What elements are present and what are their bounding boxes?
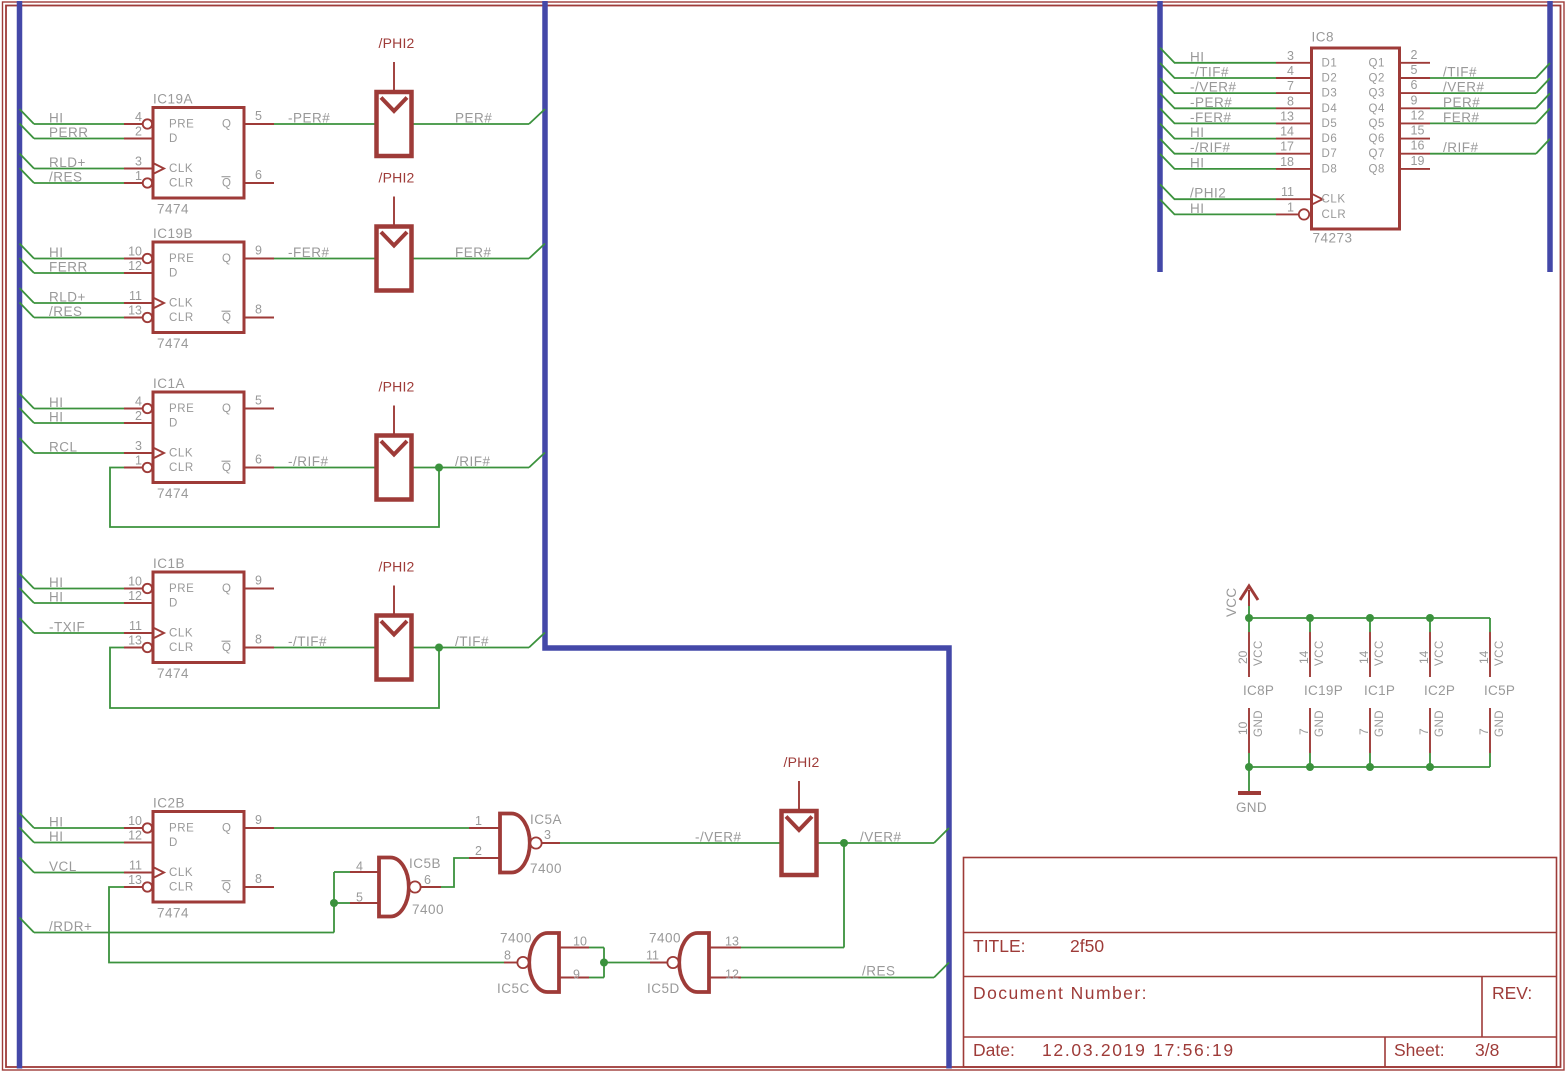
svg-text:12: 12 <box>1411 108 1425 122</box>
svg-text:PRE: PRE <box>169 403 194 415</box>
svg-text:HI: HI <box>49 245 64 260</box>
svg-text:12: 12 <box>128 589 142 603</box>
svg-text:GND: GND <box>1494 710 1506 737</box>
svg-text:Q: Q <box>222 119 231 131</box>
svg-text:2f50: 2f50 <box>1070 936 1104 956</box>
svg-text:-PER#: -PER# <box>288 111 330 126</box>
svg-text:11: 11 <box>646 949 659 963</box>
svg-text:11: 11 <box>129 289 142 303</box>
svg-text:Q: Q <box>222 583 231 595</box>
svg-text:7474: 7474 <box>157 906 189 921</box>
svg-text:9: 9 <box>255 244 262 258</box>
svg-text:9: 9 <box>255 813 262 827</box>
svg-text:PRE: PRE <box>169 119 194 131</box>
svg-text:/PHI2: /PHI2 <box>1190 186 1226 201</box>
svg-text:12.03.2019 17:56:19: 12.03.2019 17:56:19 <box>1042 1040 1235 1060</box>
svg-text:CLR: CLR <box>169 312 194 324</box>
svg-text:IC1B: IC1B <box>153 556 185 571</box>
svg-text:1: 1 <box>475 814 482 828</box>
svg-text:-/TIF#: -/TIF# <box>288 634 327 649</box>
svg-text:GND: GND <box>1434 710 1446 737</box>
svg-text:/RIF#: /RIF# <box>1443 140 1479 155</box>
svg-text:13: 13 <box>725 935 739 949</box>
svg-text:3: 3 <box>1287 49 1294 63</box>
svg-text:IC1A: IC1A <box>153 376 185 391</box>
svg-text:REV:: REV: <box>1492 983 1532 1003</box>
svg-text:/PHI2: /PHI2 <box>379 35 415 51</box>
svg-text:7: 7 <box>1297 728 1311 735</box>
svg-text:PRE: PRE <box>169 823 194 835</box>
svg-text:/VER#: /VER# <box>860 830 902 845</box>
svg-text:4: 4 <box>1287 64 1294 78</box>
svg-text:GND: GND <box>1374 710 1386 737</box>
svg-text:/PHI2: /PHI2 <box>379 170 415 186</box>
svg-text:7474: 7474 <box>157 202 189 217</box>
svg-text:IC2P: IC2P <box>1424 683 1455 698</box>
svg-text:8: 8 <box>255 303 262 317</box>
svg-text:D4: D4 <box>1322 103 1338 115</box>
svg-text:13: 13 <box>128 873 142 887</box>
svg-text:Q: Q <box>222 882 231 894</box>
svg-text:/TIF#: /TIF# <box>1443 65 1477 80</box>
svg-text:20: 20 <box>1236 650 1250 664</box>
svg-text:D2: D2 <box>1322 73 1338 85</box>
svg-text:Date:: Date: <box>973 1040 1015 1060</box>
svg-text:IC5B: IC5B <box>409 856 441 871</box>
svg-text:Q3: Q3 <box>1369 88 1386 100</box>
svg-text:13: 13 <box>128 304 142 318</box>
svg-text:10: 10 <box>128 575 142 589</box>
svg-text:HI: HI <box>49 111 64 126</box>
svg-text:RCL: RCL <box>49 440 78 455</box>
svg-text:7400: 7400 <box>412 902 444 917</box>
svg-text:/RES: /RES <box>49 304 83 319</box>
svg-text:TITLE:: TITLE: <box>973 936 1026 956</box>
svg-text:IC5A: IC5A <box>530 812 562 827</box>
svg-text:2: 2 <box>1411 48 1418 62</box>
svg-text:-/TIF#: -/TIF# <box>1190 65 1229 80</box>
svg-text:6: 6 <box>255 453 262 467</box>
svg-text:4: 4 <box>356 860 363 874</box>
svg-text:HI: HI <box>49 590 64 605</box>
svg-text:GND: GND <box>1314 710 1326 737</box>
svg-text:HI: HI <box>1190 49 1205 64</box>
svg-text:IC5D: IC5D <box>647 981 680 996</box>
svg-text:HI: HI <box>49 829 64 844</box>
svg-text:VCC: VCC <box>1314 640 1326 666</box>
svg-text:-FER#: -FER# <box>1190 110 1232 125</box>
svg-text:D5: D5 <box>1322 118 1338 130</box>
svg-text:CLK: CLK <box>1322 194 1346 206</box>
svg-text:FERR: FERR <box>49 260 88 275</box>
svg-text:12: 12 <box>128 259 142 273</box>
svg-text:FER#: FER# <box>1443 110 1480 125</box>
svg-text:1: 1 <box>1287 200 1294 214</box>
svg-text:D: D <box>169 598 178 610</box>
svg-text:6: 6 <box>424 873 431 887</box>
svg-text:14: 14 <box>1477 650 1491 664</box>
svg-text:HI: HI <box>49 815 64 830</box>
svg-text:HI: HI <box>49 395 64 410</box>
svg-text:Q2: Q2 <box>1369 73 1386 85</box>
svg-text:D: D <box>169 418 178 430</box>
svg-text:/VER#: /VER# <box>1443 80 1485 95</box>
svg-text:/RES: /RES <box>49 170 83 185</box>
svg-text:Q: Q <box>222 253 231 265</box>
svg-text:9: 9 <box>255 574 262 588</box>
svg-text:5: 5 <box>1411 63 1418 77</box>
svg-text:GND: GND <box>1253 710 1265 737</box>
svg-text:10: 10 <box>128 245 142 259</box>
svg-text:7: 7 <box>1357 728 1371 735</box>
svg-text:3/8: 3/8 <box>1475 1040 1499 1060</box>
svg-text:PRE: PRE <box>169 253 194 265</box>
svg-text:Q: Q <box>222 312 231 324</box>
svg-text:12: 12 <box>725 968 739 982</box>
svg-text:10: 10 <box>1236 721 1250 735</box>
svg-text:Document Number:: Document Number: <box>973 983 1148 1003</box>
svg-text:3: 3 <box>135 439 142 453</box>
svg-text:/TIF#: /TIF# <box>455 634 489 649</box>
svg-text:CLK: CLK <box>169 867 193 879</box>
svg-text:CLR: CLR <box>169 642 194 654</box>
svg-text:14: 14 <box>1297 650 1311 664</box>
svg-text:HI: HI <box>49 410 64 425</box>
svg-text:Q1: Q1 <box>1369 57 1386 69</box>
svg-text:CLR: CLR <box>169 462 194 474</box>
svg-text:1: 1 <box>135 454 142 468</box>
svg-text:9: 9 <box>573 968 580 982</box>
svg-text:FER#: FER# <box>455 245 492 260</box>
svg-text:2: 2 <box>135 125 142 139</box>
svg-text:15: 15 <box>1411 124 1425 138</box>
svg-text:2: 2 <box>475 844 482 858</box>
svg-text:D8: D8 <box>1322 163 1338 175</box>
svg-text:Q8: Q8 <box>1369 163 1386 175</box>
svg-text:-/RIF#: -/RIF# <box>1190 140 1231 155</box>
svg-text:14: 14 <box>1417 650 1431 664</box>
svg-text:9: 9 <box>1411 93 1418 107</box>
svg-text:8: 8 <box>1287 94 1294 108</box>
svg-text:VCC: VCC <box>1253 640 1265 666</box>
svg-text:IC5C: IC5C <box>497 981 530 996</box>
svg-text:Q6: Q6 <box>1369 133 1386 145</box>
svg-text:11: 11 <box>129 619 142 633</box>
svg-text:14: 14 <box>1280 125 1294 139</box>
svg-text:Q: Q <box>222 462 231 474</box>
svg-text:Q5: Q5 <box>1369 118 1386 130</box>
svg-text:PER#: PER# <box>455 111 492 126</box>
svg-text:19: 19 <box>1411 154 1425 168</box>
svg-text:CLR: CLR <box>1322 209 1347 221</box>
svg-text:5: 5 <box>255 109 262 123</box>
svg-text:2: 2 <box>135 409 142 423</box>
svg-text:3: 3 <box>544 828 551 842</box>
svg-text:7474: 7474 <box>157 336 189 351</box>
svg-text:11: 11 <box>129 859 142 873</box>
svg-text:IC8P: IC8P <box>1243 683 1274 698</box>
svg-text:IC19P: IC19P <box>1304 683 1343 698</box>
svg-text:7: 7 <box>1477 728 1491 735</box>
svg-text:VCC: VCC <box>1374 640 1386 666</box>
svg-text:7: 7 <box>1287 79 1294 93</box>
svg-text:18: 18 <box>1280 155 1294 169</box>
svg-text:7400: 7400 <box>649 931 681 946</box>
svg-text:17: 17 <box>1280 140 1294 154</box>
svg-text:D: D <box>169 837 178 849</box>
svg-text:12: 12 <box>128 829 142 843</box>
svg-text:HI: HI <box>1190 155 1205 170</box>
svg-text:/RIF#: /RIF# <box>455 454 491 469</box>
svg-text:Q: Q <box>222 403 231 415</box>
svg-text:10: 10 <box>128 814 142 828</box>
svg-text:/RDR+: /RDR+ <box>49 919 92 934</box>
svg-text:-PER#: -PER# <box>1190 95 1232 110</box>
svg-text:7474: 7474 <box>157 486 189 501</box>
svg-text:-FER#: -FER# <box>288 245 330 260</box>
svg-text:PERR: PERR <box>49 125 89 140</box>
svg-text:11: 11 <box>1281 185 1294 199</box>
svg-text:/PHI2: /PHI2 <box>784 754 820 770</box>
svg-text:Q: Q <box>222 178 231 190</box>
svg-text:D1: D1 <box>1322 57 1338 69</box>
svg-text:4: 4 <box>135 110 142 124</box>
svg-text:IC5P: IC5P <box>1484 683 1515 698</box>
svg-text:IC19B: IC19B <box>153 226 193 241</box>
svg-text:16: 16 <box>1411 139 1425 153</box>
svg-text:VCL: VCL <box>49 859 77 874</box>
svg-text:HI: HI <box>1190 125 1205 140</box>
svg-text:7400: 7400 <box>500 931 532 946</box>
svg-text:Q7: Q7 <box>1369 148 1386 160</box>
svg-text:VCC: VCC <box>1434 640 1446 666</box>
svg-text:7400: 7400 <box>530 861 562 876</box>
svg-text:7: 7 <box>1417 728 1431 735</box>
svg-text:10: 10 <box>573 935 587 949</box>
svg-text:1: 1 <box>135 169 142 183</box>
svg-text:IC19A: IC19A <box>153 92 193 107</box>
svg-text:PRE: PRE <box>169 583 194 595</box>
svg-text:5: 5 <box>255 394 262 408</box>
svg-text:/RES: /RES <box>862 964 896 979</box>
svg-text:Q: Q <box>222 642 231 654</box>
svg-text:8: 8 <box>255 872 262 886</box>
svg-text:-TXIF: -TXIF <box>49 620 85 635</box>
svg-text:-/VER#: -/VER# <box>1190 80 1237 95</box>
svg-text:PER#: PER# <box>1443 95 1480 110</box>
svg-text:D3: D3 <box>1322 88 1338 100</box>
svg-text:/PHI2: /PHI2 <box>379 559 415 575</box>
svg-text:Q: Q <box>222 823 231 835</box>
svg-text:8: 8 <box>504 949 511 963</box>
svg-text:GND: GND <box>1236 800 1267 815</box>
svg-text:7474: 7474 <box>157 666 189 681</box>
svg-text:8: 8 <box>255 633 262 647</box>
svg-text:CLK: CLK <box>169 163 193 175</box>
svg-text:Sheet:: Sheet: <box>1394 1040 1445 1060</box>
svg-text:13: 13 <box>1280 109 1294 123</box>
svg-text:CLK: CLK <box>169 448 193 460</box>
svg-text:CLR: CLR <box>169 882 194 894</box>
svg-text:14: 14 <box>1357 650 1371 664</box>
svg-text:-/RIF#: -/RIF# <box>288 454 329 469</box>
svg-text:RLD+: RLD+ <box>49 290 86 305</box>
svg-text:CLK: CLK <box>169 628 193 640</box>
svg-text:5: 5 <box>356 891 363 905</box>
svg-text:-/VER#: -/VER# <box>695 830 742 845</box>
svg-text:D6: D6 <box>1322 133 1338 145</box>
svg-text:/PHI2: /PHI2 <box>379 379 415 395</box>
svg-text:IC2B: IC2B <box>153 796 185 811</box>
svg-text:CLK: CLK <box>169 298 193 310</box>
svg-text:D7: D7 <box>1322 148 1338 160</box>
svg-text:D: D <box>169 133 178 145</box>
svg-text:3: 3 <box>135 155 142 169</box>
svg-text:RLD+: RLD+ <box>49 155 86 170</box>
svg-text:Q4: Q4 <box>1369 103 1386 115</box>
svg-text:4: 4 <box>135 395 142 409</box>
svg-text:CLR: CLR <box>169 178 194 190</box>
svg-text:74273: 74273 <box>1313 231 1353 246</box>
svg-text:D: D <box>169 268 178 280</box>
svg-text:VCC: VCC <box>1224 588 1239 617</box>
svg-text:13: 13 <box>128 634 142 648</box>
svg-text:VCC: VCC <box>1494 640 1506 666</box>
svg-text:IC1P: IC1P <box>1364 683 1395 698</box>
svg-text:6: 6 <box>255 168 262 182</box>
svg-text:IC8: IC8 <box>1312 30 1335 45</box>
svg-text:HI: HI <box>1190 201 1205 216</box>
svg-text:6: 6 <box>1411 78 1418 92</box>
svg-text:HI: HI <box>49 575 64 590</box>
